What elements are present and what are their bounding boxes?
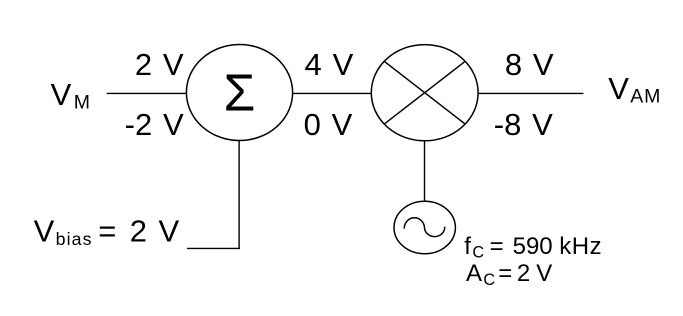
svg-text:f: f [464,233,471,260]
svg-text:V: V [51,77,72,112]
summing junction U1 circle [186,45,292,141]
node VAM label [608,71,661,108]
svg-text:C: C [472,244,484,262]
svg-text:V: V [159,213,180,248]
svg-text:4 V: 4 V [305,47,354,82]
oscillator source circle [394,201,455,254]
svg-text:C: C [483,271,495,289]
svg-text:bias: bias [56,229,93,249]
wire multiplier to output VAM [478,92,583,94]
svg-text:2 V: 2 V [135,47,184,82]
wire input VM to summer [107,92,187,94]
label 8 V output high [505,47,554,82]
multiplier U2 X diagonal 2 [385,62,465,124]
label Vbias equation [34,213,180,248]
svg-text:2: 2 [130,213,147,248]
svg-text:AM: AM [630,85,661,107]
label Ac equation [466,260,552,289]
svg-text:A: A [466,260,482,287]
wire multiplier bottom to oscillator [424,141,426,201]
svg-text:590: 590 [513,233,553,260]
svg-text:V: V [608,71,629,106]
svg-text:V: V [34,213,55,248]
svg-text:kHz: kHz [559,233,602,260]
svg-text:0 V: 0 V [304,107,353,142]
svg-text:=: = [98,213,116,248]
summing junction U1 sigma symbol [223,63,255,121]
label 4 V sum high [305,47,354,82]
svg-text:-2 V: -2 V [125,107,184,142]
wire bias horizontal [187,247,240,249]
svg-text:-8 V: -8 V [494,107,553,142]
label 0 V sum low [304,107,353,142]
wire summer bottom vertical bias input [238,141,240,250]
svg-text:=: = [490,233,504,260]
svg-text:8 V: 8 V [505,47,554,82]
node VM label [51,77,90,114]
label -2 V input low [125,107,184,142]
label -8 V output low [494,107,553,142]
svg-text:M: M [74,92,90,114]
label 2 V input high [135,47,184,82]
wire summer to multiplier [293,92,372,94]
svg-text:Σ: Σ [223,63,255,121]
svg-text:2: 2 [517,260,530,287]
multiplier U2 X diagonal 1 [385,62,465,124]
multiplier U2 circle [371,45,478,141]
svg-text:=: = [498,260,512,287]
oscillator sine wave [404,218,444,237]
label fc equation [464,233,602,262]
svg-text:V: V [536,260,552,287]
